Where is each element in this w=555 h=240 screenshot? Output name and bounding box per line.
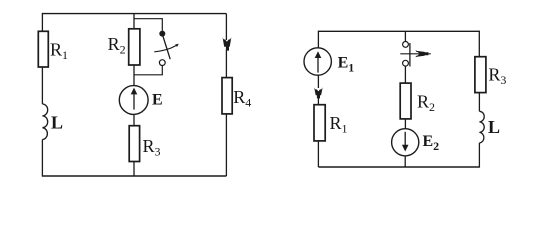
switch S2 top contact bbox=[403, 42, 409, 48]
wire bottom bbox=[42, 175, 226, 177]
current arrow I1 bbox=[314, 87, 322, 98]
switch S2 blade bbox=[409, 43, 411, 66]
resistor R1 bbox=[314, 105, 325, 141]
svg-text:R3: R3 bbox=[143, 136, 161, 158]
wire R3 to L bbox=[478, 93, 480, 112]
wire middle stub from top bbox=[133, 14, 135, 29]
svg-text:E2: E2 bbox=[423, 133, 440, 153]
wire right lower bbox=[225, 114, 227, 176]
source E2 bbox=[392, 129, 419, 156]
resistor R2 bbox=[129, 29, 140, 65]
wire R1 to bottom bbox=[317, 141, 319, 167]
switch S motion arrow bbox=[154, 45, 176, 51]
inductor L bbox=[42, 104, 47, 140]
wire right upper bbox=[478, 31, 480, 57]
svg-text:R4: R4 bbox=[233, 87, 251, 109]
wire switch-loop top bbox=[134, 19, 162, 31]
wire switch to R2 bbox=[404, 66, 406, 83]
source E1 bbox=[304, 48, 331, 75]
switch S2 bottom contact bbox=[403, 60, 409, 66]
svg-text:E: E bbox=[152, 92, 163, 109]
svg-text:L: L bbox=[488, 117, 500, 137]
resistor R1 bbox=[38, 31, 48, 67]
wire bottom bbox=[318, 166, 479, 168]
wire middle upper bbox=[404, 31, 406, 41]
wire arrow to R1 bbox=[317, 97, 319, 105]
switch S2 motion arrow bbox=[400, 53, 431, 55]
switch S contact dot bbox=[159, 31, 165, 37]
svg-text:R1: R1 bbox=[330, 113, 348, 135]
wire L to bottom bbox=[478, 143, 480, 168]
svg-text:R1: R1 bbox=[50, 40, 68, 62]
inductor L bbox=[479, 111, 484, 143]
resistor R3 bbox=[129, 126, 139, 162]
svg-text:R2: R2 bbox=[108, 34, 126, 56]
current arrow I4 bbox=[223, 37, 232, 50]
wire top bbox=[318, 30, 479, 32]
wire R2 to E2 bbox=[404, 119, 406, 129]
resistor R3 bbox=[475, 57, 486, 93]
wire top bbox=[42, 13, 226, 15]
switch S open contact bbox=[159, 60, 165, 66]
svg-text:R3: R3 bbox=[488, 65, 506, 87]
svg-text:L: L bbox=[51, 113, 63, 133]
wire E2 to bottom bbox=[404, 156, 406, 167]
wire left lower bbox=[41, 140, 43, 177]
wire E1 to arrow bbox=[317, 75, 319, 88]
svg-text:E1: E1 bbox=[338, 55, 355, 75]
resistor R2 bbox=[400, 83, 411, 119]
svg-text:R2: R2 bbox=[417, 91, 435, 113]
wire left upper bbox=[317, 31, 319, 48]
wire R3 to bottom bbox=[133, 162, 135, 177]
wire left upper bbox=[41, 13, 43, 31]
wire E to R3 bbox=[133, 114, 135, 125]
wire right upper bbox=[225, 14, 227, 40]
wire arrow to R4 bbox=[225, 50, 227, 78]
switch S blade bbox=[163, 36, 170, 59]
wire left mid bbox=[41, 67, 43, 104]
wire switch-loop bottom bbox=[134, 66, 162, 75]
source E bbox=[119, 86, 148, 115]
resistor R4 bbox=[222, 78, 232, 114]
wire R2 to E bbox=[133, 65, 135, 86]
